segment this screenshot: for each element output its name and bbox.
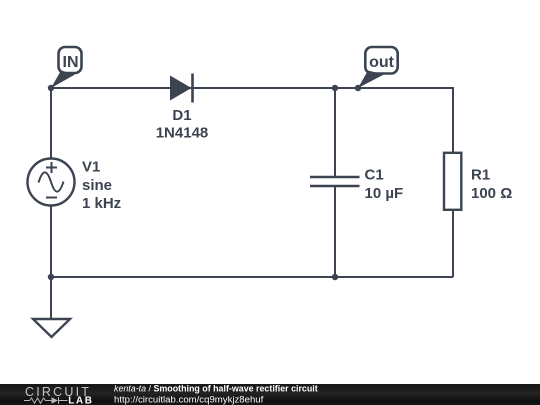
- wire: left vertical upper (IN node to V1 top): [50, 88, 52, 159]
- wire: right vertical upper (corner to R1 top): [452, 87, 454, 153]
- label D1 value text: [156, 107, 209, 142]
- svg-text:sine: sine: [82, 177, 112, 194]
- label V1 value text: [82, 158, 121, 212]
- node out junction dot: [355, 85, 361, 91]
- logo resistor-diode doodle: [24, 397, 68, 404]
- svg-text:1N4148: 1N4148: [156, 125, 209, 142]
- node junction dot at ground: [48, 274, 54, 280]
- wire: bottom horizontal: [51, 276, 453, 278]
- svg-text:V1: V1: [82, 158, 100, 175]
- ground: [33, 319, 70, 337]
- diode D1: [170, 74, 193, 103]
- svg-text:out: out: [369, 54, 395, 71]
- svg-text:100 Ω: 100 Ω: [471, 185, 512, 202]
- capacitor C1 plates: [310, 177, 360, 186]
- wire: capacitor branch upper (top wire to C1 top plate): [334, 88, 336, 177]
- wire: right vertical lower (R1 bottom to bottom wire): [452, 210, 454, 277]
- resistor R1 (box style): [444, 153, 461, 210]
- svg-text:1 kHz: 1 kHz: [82, 195, 121, 212]
- svg-text:LAB: LAB: [68, 396, 93, 405]
- wire: capacitor branch lower (C1 bottom plate to bottom wire): [334, 186, 336, 277]
- svg-text:C1: C1: [365, 167, 384, 184]
- voltage source V1 (sine source circle): [28, 159, 75, 206]
- svg-text:kenta-ta / Smoothing of half-w: kenta-ta / Smoothing of half-wave rectif…: [114, 383, 318, 393]
- node junction dot at C1 top: [332, 85, 338, 91]
- flag IN: [51, 47, 82, 88]
- svg-text:D1: D1: [172, 107, 191, 124]
- label R1 value text: [471, 167, 512, 203]
- node junction dot at C1 bottom: [332, 274, 338, 280]
- label C1 value text: [365, 167, 404, 203]
- svg-text:10 µF: 10 µF: [365, 185, 404, 202]
- wire: top horizontal from IN node to right corner: [51, 87, 453, 89]
- wire: ground stem: [50, 277, 52, 319]
- svg-text:R1: R1: [471, 167, 490, 184]
- wire: left vertical lower (V1 bottom to bottom wire): [50, 205, 52, 277]
- node IN junction dot: [48, 85, 54, 91]
- svg-text:IN: IN: [63, 54, 79, 71]
- svg-text:http://circuitlab.com/cq9mykjz: http://circuitlab.com/cq9mykjz8ehuf: [114, 395, 264, 405]
- flag out: [358, 47, 398, 88]
